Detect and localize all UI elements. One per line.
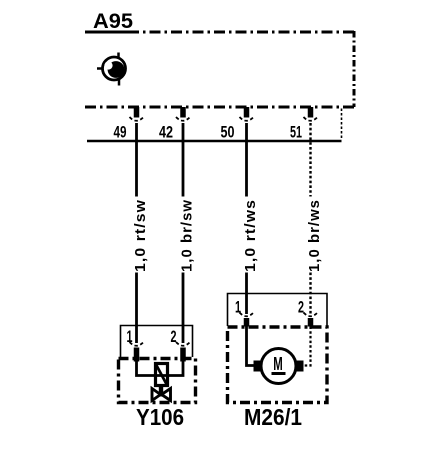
Y106 pin 2 stub <box>180 348 186 362</box>
terminal 49 pin stub <box>134 107 140 118</box>
control unit A95 box bottom border <box>85 106 354 109</box>
terminal 51 socket arc <box>304 117 318 121</box>
Y106 pin 1 stub <box>134 348 140 362</box>
M26/1 internal dotted wire pin2 <box>303 327 311 366</box>
M26/1 internal wire pin1 <box>247 327 255 366</box>
svg-text:1,0 br/sw: 1,0 br/sw <box>180 199 196 272</box>
M26/1 pin 1 socket arc <box>240 313 254 317</box>
wire from terminal 49 lower segment <box>135 273 138 344</box>
control unit A95 box right border <box>353 31 356 107</box>
M26/1 pin 2 stub <box>308 318 314 327</box>
M26/1 connector housing <box>228 294 328 327</box>
wire from terminal 49 upper segment <box>135 123 138 197</box>
svg-text:1,0 rt/ws: 1,0 rt/ws <box>243 199 259 272</box>
wire from terminal 50 upper segment <box>245 123 248 197</box>
svg-text:M: M <box>273 354 283 374</box>
svg-text:M26/1: M26/1 <box>244 404 302 430</box>
svg-text:2: 2 <box>298 298 304 317</box>
M26/1 pin 2 socket arc <box>304 313 318 317</box>
svg-text:49: 49 <box>114 123 127 142</box>
svg-text:51: 51 <box>290 123 302 142</box>
terminal 50 pin stub <box>244 107 250 118</box>
Y106 internal wire pin1 <box>137 362 162 376</box>
Y106 solenoid coil rectangle with diagonal <box>156 364 168 386</box>
svg-text:42: 42 <box>159 123 173 142</box>
M26/1 motor brush right <box>295 361 304 372</box>
sensor symbol inside A95 <box>97 53 126 86</box>
svg-text:50: 50 <box>221 123 235 142</box>
M26/1 motor brush left <box>254 361 263 372</box>
wire from terminal 42 upper segment <box>182 123 185 197</box>
M26/1 motor circle <box>261 349 296 384</box>
M26/1 pin 1 stub <box>244 318 250 327</box>
control unit A95 box top border <box>85 31 354 34</box>
svg-text:2: 2 <box>171 327 177 346</box>
terminal 42 socket arc <box>176 117 190 121</box>
svg-text:1,0 rt/sw: 1,0 rt/sw <box>133 199 149 272</box>
svg-text:A95: A95 <box>93 10 133 33</box>
svg-text:1,0 br/ws: 1,0 br/ws <box>307 199 323 272</box>
Y106 pin 2 socket arc <box>176 342 190 346</box>
Y106 valve stem <box>159 386 163 397</box>
Y106 connector housing <box>121 326 193 358</box>
dashed wire from terminal 51 lower segment <box>309 273 311 315</box>
dashed wire from terminal 51 upper segment <box>309 123 311 197</box>
M26/1 component dash-dot box <box>228 327 328 403</box>
terminal 42 pin stub <box>180 107 186 118</box>
wire from terminal 42 lower segment <box>182 273 185 344</box>
dotted drop line at right of connector row <box>341 109 343 141</box>
Y106 component dash-dot box <box>119 359 196 403</box>
terminal 51 pin stub <box>308 107 314 118</box>
terminal 49 socket arc <box>130 117 144 121</box>
svg-text:Y106: Y106 <box>136 404 184 430</box>
terminal 50 socket arc <box>240 117 254 121</box>
Y106 pin 1 socket arc <box>130 342 144 346</box>
Y106 valve bowtie <box>152 389 161 401</box>
Y106 internal wire pin2 <box>161 362 183 376</box>
wire from terminal 50 lower segment <box>245 273 248 315</box>
harness separator line <box>87 140 342 143</box>
